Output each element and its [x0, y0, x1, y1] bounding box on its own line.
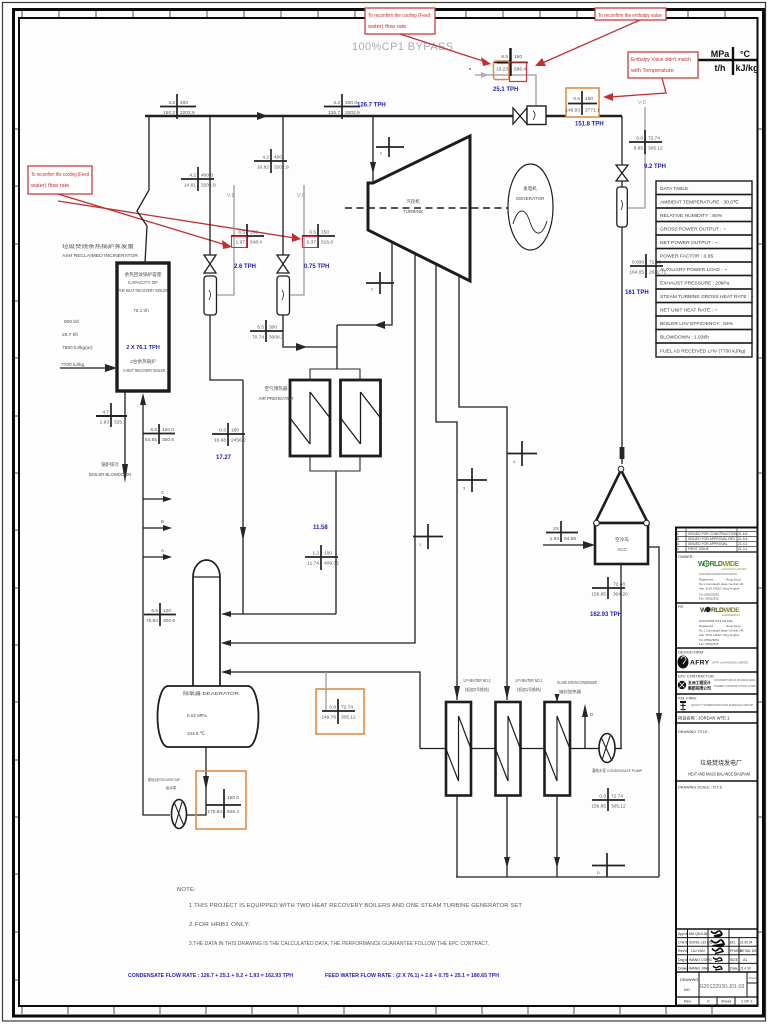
svg-text:21.3.1: 21.3.1 — [738, 547, 748, 551]
node cross blowdown — [96, 403, 127, 427]
svg-text:54.55: 54.55 — [145, 437, 157, 443]
DATATABLE — [656, 181, 754, 357]
valve exhaust bypass — [616, 165, 628, 181]
wire GSC steam stub — [556, 695, 558, 702]
generator G1 — [508, 164, 553, 250]
svg-text:150: 150 — [585, 96, 593, 102]
wire top bypass to desuperheater (ghost) — [475, 75, 536, 106]
svg-text:Dsg'd: Dsg'd — [678, 958, 687, 962]
svg-text:TURBINE: TURBINE — [403, 209, 423, 214]
node cross drop2 — [254, 149, 289, 173]
svg-text:HEAT AND MASS BALANCE DIAGRAM: HEAT AND MASS BALANCE DIAGRAM — [688, 772, 750, 777]
svg-text:300.6: 300.6 — [163, 618, 175, 624]
svg-text:305.12: 305.12 — [611, 804, 626, 810]
svg-text:C: C — [707, 1000, 710, 1004]
node cross preheater-out 11.58 — [305, 545, 339, 570]
svg-text:180: 180 — [231, 428, 239, 434]
svg-text:No.1 Connaught place Central,: No.1 Connaught place Central, HK — [699, 582, 744, 586]
svg-text:548.4: 548.4 — [250, 240, 262, 246]
feed water pump P1 — [172, 800, 187, 829]
svg-text:Hong Kong: Hong Kong — [726, 578, 741, 582]
svg-text:with Temperature: with Temperature — [630, 68, 674, 74]
approval table — [676, 929, 758, 972]
svg-text:Attn: W.W. FIELD Yang Knights: Attn: W.W. FIELD Yang Knights — [699, 587, 740, 591]
svg-text:400: 400 — [180, 100, 188, 106]
wire deaerator inlet bottom (condensate) — [231, 672, 420, 749]
svg-text:Rev'd: Rev'd — [678, 949, 687, 953]
svg-text:1.2: 1.2 — [312, 551, 319, 557]
svg-text:RLDWIDE: RLDWIDE — [710, 561, 740, 568]
svg-text:QUALITY SUPERVISION FOR SHANGH: QUALITY SUPERVISION FOR SHANGHAI GROUP — [691, 703, 754, 707]
svg-text:CONSORTIUM OF WUZHOU ENG.: CONSORTIUM OF WUZHOU ENG. — [714, 678, 756, 682]
svg-text:DETAIL DSN: DETAIL DSN — [740, 949, 759, 953]
wire GSC vent D — [584, 716, 586, 749]
svg-text:V-D: V-D — [638, 100, 647, 106]
wire ACC right outlet to drain header — [648, 547, 659, 877]
svg-text:1.93: 1.93 — [100, 420, 110, 426]
wire condensate main through heaters — [420, 748, 599, 750]
deaerator column — [193, 560, 220, 686]
svg-text:(低加2号换热): (低加2号换热) — [465, 686, 490, 693]
svg-text:94.86: 94.86 — [564, 536, 576, 542]
node cross turbine inlet 0 — [376, 137, 404, 157]
svg-text:D: D — [590, 712, 594, 717]
node cross extraction 2 — [366, 272, 394, 294]
svg-text:垃圾焚烧余热锅炉蒸发量: 垃圾焚烧余热锅炉蒸发量 — [62, 243, 135, 250]
label air preheater — [258, 385, 293, 401]
svg-text:0.8: 0.8 — [599, 794, 606, 800]
svg-text:0: 0 — [677, 547, 679, 551]
svg-text:72.68: 72.68 — [613, 582, 625, 588]
node cross V-B flow — [231, 224, 264, 248]
svg-text:GROSS POWER OUTPUT : ~: GROSS POWER OUTPUT : ~ — [660, 227, 726, 233]
svg-text:垃圾焚烧发电厂: 垃圾焚烧发电厂 — [700, 759, 742, 767]
svg-text:DRAWING: DRAWING — [680, 978, 698, 982]
node cross extraction 3 — [457, 468, 487, 492]
TITLEBLOCK — [676, 528, 759, 1006]
wire cylinder2 outlet to preheater — [283, 315, 337, 347]
revision mini table — [676, 528, 758, 553]
svg-text:P.M. FIRM:: P.M. FIRM: — [678, 697, 697, 701]
svg-text:16.68: 16.68 — [214, 438, 226, 444]
svg-text:NET UNIT HEAT RATE : ~: NET UNIT HEAT RATE : ~ — [660, 308, 717, 314]
NOTES — [128, 887, 522, 979]
svg-text:156.85: 156.85 — [591, 592, 606, 598]
wire LPH1 drain — [506, 796, 508, 878]
svg-text:2X: 2X — [553, 526, 560, 532]
svg-text:150.2: 150.2 — [163, 110, 175, 116]
svg-text:3: 3 — [463, 486, 466, 491]
svg-text:6.5: 6.5 — [151, 608, 158, 614]
right ruler ticks — [758, 129, 764, 932]
svg-text:1.THIS PROJECT IS EQUIPPED WIT: 1.THIS PROJECT IS EQUIPPED WITH TWO HEAT… — [189, 903, 522, 909]
svg-text:AUXILIARY POWER LOAD : ~: AUXILIARY POWER LOAD : ~ — [660, 267, 727, 273]
svg-text:3202.9: 3202.9 — [201, 183, 216, 189]
svg-text:120: 120 — [163, 608, 171, 614]
bottom row — [698, 997, 700, 1006]
svg-text:给水泵: 给水泵 — [166, 785, 177, 790]
svg-text:4.2: 4.2 — [189, 173, 196, 179]
svg-text:Sheet: Sheet — [721, 1000, 732, 1004]
attemperator cylinder 1 — [204, 276, 217, 315]
svg-text:72.74: 72.74 — [341, 705, 353, 711]
svg-text:3202.9: 3202.9 — [274, 165, 289, 171]
ANNOTATIONS — [28, 8, 698, 249]
svg-text:余热回收锅炉容量: 余热回收锅炉容量 — [125, 271, 162, 278]
svg-text:0.8: 0.8 — [636, 136, 643, 142]
svg-text:To reconfirm the cooling (Feed: To reconfirm the cooling (Feed — [31, 172, 89, 178]
svg-text:ISSUED FOR APPROVAL REV: ISSUED FOR APPROVAL REV — [688, 537, 736, 541]
wire ghost bypass V-D — [628, 107, 645, 208]
svg-text:10.82: 10.82 — [257, 165, 269, 171]
svg-text:149.93: 149.93 — [565, 108, 580, 114]
svg-text:Rev: Rev — [684, 1000, 691, 1004]
svg-text:V-B: V-B — [227, 193, 236, 199]
wire GSC drain — [556, 796, 558, 878]
label fuel data — [61, 319, 93, 368]
wire fuel feed arrow — [60, 367, 110, 369]
wire drop line 2 (to V-C train) — [282, 116, 284, 255]
flow arrow on header — [257, 112, 268, 120]
svg-text:325.3: 325.3 — [114, 420, 126, 426]
DATA-CROSSES — [96, 48, 667, 877]
svg-text:2.FOR HRB1 ONLY.: 2.FOR HRB1 ONLY. — [189, 922, 250, 928]
svg-text:空气预热器: 空气预热器 — [265, 385, 288, 392]
wire extraction x459 to LP heater1 — [459, 275, 507, 700]
node cross preheater-in — [250, 320, 284, 342]
svg-text:Drawn: Drawn — [678, 966, 688, 970]
svg-text:150.0: 150.0 — [227, 795, 239, 801]
svg-text:156.85: 156.85 — [591, 804, 606, 810]
svg-text:AFRY (SHANGHAI) LIMITED: AFRY (SHANGHAI) LIMITED — [712, 661, 748, 665]
svg-text:25.1 TPH: 25.1 TPH — [493, 87, 518, 93]
svg-text:RLDWIDE: RLDWIDE — [711, 607, 740, 614]
svg-text:2456.2: 2456.2 — [231, 438, 246, 444]
svg-text:HOLDINGS LIMITED: HOLDINGS LIMITED — [722, 567, 747, 571]
svg-text:BOILER BLOWDOWN: BOILER BLOWDOWN — [89, 472, 131, 477]
top ruler ticks — [22, 11, 725, 17]
svg-text:Date: Date — [730, 966, 738, 970]
drawing number block — [698, 972, 700, 997]
svg-text:AMBIENT TEMPERATURE : 30.0℃: AMBIENT TEMPERATURE : 30.0℃ — [660, 200, 739, 206]
svg-text:2771.1: 2771.1 — [585, 108, 600, 114]
svg-text:75.84: 75.84 — [146, 618, 158, 624]
svg-text:120.0: 120.0 — [162, 427, 174, 433]
svg-text:POWER FACTOR : 0.85: POWER FACTOR : 0.85 — [660, 254, 713, 260]
svg-text:DRAWING TITLE:: DRAWING TITLE: — [678, 730, 709, 734]
svg-text:7850 kJ/kg(ar): 7850 kJ/kg(ar) — [62, 345, 93, 351]
svg-text:FUEL AS RECEIVED LHV (7700 kJ/: FUEL AS RECEIVED LHV (7700 kJ/kg) — [660, 349, 746, 355]
node cross deaerator-in (orange) — [316, 689, 364, 734]
node cross drain-header — [592, 853, 625, 877]
svg-text:AFRY: AFRY — [690, 660, 710, 667]
node cross extraction 1 — [413, 524, 443, 549]
svg-text:4.2: 4.2 — [333, 100, 340, 106]
svg-text:305.12: 305.12 — [648, 146, 663, 152]
svg-text:五洲工程设计: 五洲工程设计 — [688, 680, 711, 685]
svg-text:NOTE:: NOTE: — [177, 887, 196, 893]
LEGEND — [352, 41, 759, 75]
svg-text:1 OF 1: 1 OF 1 — [741, 1000, 753, 1004]
svg-text:water) flow rate: water) flow rate — [30, 183, 69, 189]
wire extraction x415 to deaerator mid — [231, 253, 415, 643]
valve V-C control — [277, 255, 289, 273]
svg-text:LP HEATER NO.2: LP HEATER NO.2 — [464, 678, 492, 683]
svg-text:400: 400 — [274, 155, 282, 161]
svg-text:App'd: App'd — [678, 932, 687, 936]
red note box top-left — [365, 8, 435, 34]
node cross extraction 4 — [507, 441, 537, 466]
svg-text:0.6: 0.6 — [573, 96, 580, 102]
svg-text:17.27: 17.27 — [216, 455, 232, 461]
attemperator cylinder 2 — [277, 276, 290, 315]
svg-text:POWER CONSTRUCTION CORP.: POWER CONSTRUCTION CORP. — [714, 684, 756, 688]
red leader 1 — [400, 34, 486, 62]
svg-text:集团有限公司: 集团有限公司 — [687, 686, 711, 691]
condensate pump P2 — [599, 734, 615, 763]
svg-text:WORLDWIDE ADVANCED ENVIRO SERV: WORLDWIDE ADVANCED ENVIRO SERVICE — [699, 572, 737, 576]
svg-text:Fax: (852)2515: Fax: (852)2515 — [699, 597, 719, 601]
svg-text:0.600: 0.600 — [632, 260, 644, 266]
svg-text:161 TPH: 161 TPH — [625, 290, 649, 296]
wire deaerator inlet top (from preheater) — [231, 613, 336, 615]
svg-text:C: C — [161, 490, 165, 495]
svg-text:0.75 TPH: 0.75 TPH — [304, 264, 329, 270]
svg-text:MPa: MPa — [711, 49, 731, 59]
svg-text:A: A — [161, 548, 164, 553]
svg-text:100: 100 — [324, 551, 332, 557]
node cross exhaust 161 — [629, 254, 666, 278]
svg-text:No.1 Connaught place Central,: No.1 Connaught place Central, HK — [699, 629, 744, 633]
svg-text:126.7 TPH: 126.7 TPH — [357, 103, 386, 109]
svg-text:150: 150 — [514, 54, 522, 60]
svg-text:8.85: 8.85 — [634, 146, 644, 152]
shaft dashed — [345, 207, 508, 209]
svg-text:ACC: ACC — [617, 547, 627, 552]
svg-text:ISSUED FOR APPROVAL: ISSUED FOR APPROVAL — [688, 542, 728, 546]
red note box right-mid — [628, 52, 698, 78]
wire ghost bypass V-C — [290, 185, 304, 295]
svg-text:发电机: 发电机 — [523, 185, 537, 192]
svg-text:汽轮机: 汽轮机 — [406, 198, 420, 205]
node cross drop1 — [181, 167, 216, 191]
svg-text:3.THE DATA IN THIS DRAWING IS: 3.THE DATA IN THIS DRAWING IS THE CALCUL… — [189, 941, 489, 947]
wire cylinder1 outlet to deaerator leg — [210, 315, 243, 380]
legend units cross — [691, 59, 757, 61]
svg-text:Registered :: Registered : — [699, 624, 715, 628]
preheater manifolds — [310, 369, 360, 471]
svg-text:2: 2 — [371, 287, 374, 292]
svg-text:D: D — [597, 870, 600, 875]
svg-text:STEAM TURBINE GROSS HEAT RATE: STEAM TURBINE GROSS HEAT RATE : ~ — [660, 294, 754, 300]
red leader 4a — [58, 194, 226, 245]
svg-text:EXHAUST PRESSURE : 20kPa: EXHAUST PRESSURE : 20kPa — [660, 281, 729, 287]
svg-text:3008.3: 3008.3 — [269, 335, 284, 341]
svg-text:11.58: 11.58 — [313, 525, 328, 531]
svg-text:PE:: PE: — [678, 605, 684, 609]
svg-text:586.4: 586.4 — [514, 67, 526, 73]
svg-text:4.2: 4.2 — [262, 155, 269, 161]
svg-text:空冷岛: 空冷岛 — [615, 536, 629, 543]
svg-text:21.5.6: 21.5.6 — [738, 537, 748, 541]
svg-text:150: 150 — [321, 230, 329, 236]
node cross feedwater-boiler — [143, 424, 175, 444]
svg-text:0: 0 — [380, 151, 383, 156]
svg-text:P.Form: P.Form — [749, 976, 759, 980]
node cross 151.8 — [566, 88, 599, 117]
svg-text:EPC CONTRACTOR:: EPC CONTRACTOR: — [678, 675, 715, 679]
label blowdown — [89, 461, 131, 477]
ACC air cooled condenser — [595, 470, 648, 523]
svg-text:t/h: t/h — [715, 63, 726, 73]
wire offpage stub C — [143, 498, 166, 500]
svg-text:76.1 t/h: 76.1 t/h — [133, 308, 149, 313]
svg-text:300: 300 — [269, 325, 277, 331]
LP heater No.1 — [496, 702, 521, 796]
svg-text:ED.: ED. — [730, 941, 736, 945]
svg-text:NO.: NO. — [684, 988, 691, 992]
node cross ACC-in 2X1.93 — [546, 521, 578, 542]
svg-text:V-C: V-C — [297, 193, 306, 199]
air preheater PH1 — [290, 380, 330, 456]
svg-text:NET POWER OUTPUT : ~: NET POWER OUTPUT : ~ — [660, 240, 718, 246]
svg-text:BOILER LHV EFFICIENCY : 84%: BOILER LHV EFFICIENCY : 84% — [660, 321, 734, 327]
svg-text:2.6 TPH: 2.6 TPH — [234, 264, 256, 270]
svg-text:4.2: 4.2 — [168, 100, 175, 106]
svg-text:BLOWDOWN : 1.93t/h: BLOWDOWN : 1.93t/h — [660, 335, 709, 341]
wire turbine extraction to preheater — [337, 240, 392, 325]
wire LPH2 drain — [456, 796, 458, 878]
svg-text:LIU YAN: LIU YAN — [691, 949, 705, 953]
wire extraction x436 to LP heater2 — [436, 264, 457, 700]
svg-text:21.06.04: 21.06.04 — [740, 941, 753, 945]
wire gray tap to cross — [325, 672, 327, 711]
svg-text:To reconfirm the enthalpy valu: To reconfirm the enthalpy value — [598, 13, 662, 19]
wire deaerator inlet mid — [221, 640, 231, 646]
svg-text:0.02 MPa: 0.02 MPa — [187, 713, 207, 718]
EQUIPMENT — [61, 136, 649, 829]
boiler U1 heat recovery boiler — [117, 263, 169, 391]
svg-text:G20122030-J01-03: G20122030-J01-03 — [700, 984, 745, 990]
deaerator tank — [158, 686, 259, 747]
svg-text:Fax: (852)2515: Fax: (852)2515 — [699, 642, 719, 646]
svg-text:1: 1 — [419, 542, 422, 547]
svg-text:29.7 t/h: 29.7 t/h — [62, 332, 78, 338]
svg-text:305.12: 305.12 — [341, 715, 356, 721]
svg-text:AIR PREHEATER: AIR PREHEATER — [258, 396, 293, 401]
svg-text:DRAWING SCALE : N.T.S: DRAWING SCALE : N.T.S — [678, 786, 723, 790]
svg-text:900 t/d: 900 t/d — [64, 319, 79, 325]
svg-text:6.5: 6.5 — [501, 54, 508, 60]
svg-text:2 HEAT RECOVERY BOILER: 2 HEAT RECOVERY BOILER — [123, 368, 165, 373]
svg-text:(低加1号换热): (低加1号换热) — [517, 686, 542, 693]
svg-text:FIRST ISSUE: FIRST ISSUE — [688, 547, 710, 551]
svg-text:WANG CONG: WANG CONG — [689, 958, 712, 962]
svg-text:LP HEATER NO.1: LP HEATER NO.1 — [516, 678, 544, 683]
svg-text:MA QIULIN: MA QIULIN — [689, 932, 708, 936]
svg-text:19.23: 19.23 — [496, 67, 508, 73]
svg-text:516.6: 516.6 — [321, 240, 333, 246]
svg-text:CONDENSATE FLOW RATE : 126.7 +: CONDENSATE FLOW RATE : 126.7 + 25.1 + 9.… — [128, 973, 293, 979]
svg-text:SIZE: SIZE — [730, 958, 739, 962]
svg-text:SONG LEI QU: SONG LEI QU — [689, 941, 713, 945]
svg-text:846.4: 846.4 — [227, 809, 239, 815]
svg-text:21.4.2: 21.4.2 — [738, 542, 748, 546]
svg-text:kJ/kg: kJ/kg — [735, 63, 758, 73]
svg-text:6.5: 6.5 — [238, 230, 245, 236]
svg-text:350.6: 350.6 — [162, 437, 174, 443]
red note box left-mid — [28, 166, 92, 194]
wire ghost bypass V-B — [217, 185, 234, 295]
svg-text:2 X 76.1 TPH: 2 X 76.1 TPH — [126, 345, 160, 351]
svg-text:ISSUED FOR CONSTRUCTION: ISSUED FOR CONSTRUCTION — [688, 532, 738, 536]
svg-text:3202.9: 3202.9 — [180, 110, 195, 116]
svg-text:凝结水泵 CONDENSATE PUMP: 凝结水泵 CONDENSATE PUMP — [592, 768, 642, 773]
svg-text:11.74: 11.74 — [307, 561, 319, 567]
svg-text:WORLDWIDE POLE HOLDING: WORLDWIDE POLE HOLDING — [699, 619, 734, 623]
svg-text:FEED WATER FLOW RATE : (2 X 76: FEED WATER FLOW RATE : (2 X 76.1) + 2.6 … — [325, 973, 499, 979]
node cross feedpump-out (orange) — [196, 771, 246, 829]
node cross header-left — [160, 94, 196, 119]
svg-text:1.93: 1.93 — [550, 536, 560, 542]
node cross feedwater-low — [144, 603, 176, 626]
wire ACC inlet (blowdown flash) — [543, 544, 584, 546]
svg-text:400.0: 400.0 — [345, 100, 357, 106]
svg-text:DATA TABLE: DATA TABLE — [660, 186, 689, 192]
svg-text:ASH RECLAIMED INCINERATOR: ASH RECLAIMED INCINERATOR — [62, 253, 139, 258]
svg-text:GLAND STEAM CONDENSER: GLAND STEAM CONDENSER — [557, 680, 597, 685]
red leader 2 — [540, 20, 640, 64]
node cross V-D — [629, 130, 663, 154]
svg-text:6.5: 6.5 — [150, 427, 157, 433]
svg-text:RELATIVE HUMIDITY : 80%: RELATIVE HUMIDITY : 80% — [660, 213, 723, 219]
svg-text:Attn: W.W. FIELD Yang Knights: Attn: W.W. FIELD Yang Knights — [699, 633, 740, 637]
svg-text:Chk'd: Chk'd — [678, 941, 687, 945]
node cross bypass 25.1 — [494, 48, 528, 76]
wire ACC condensate down to pump — [620, 564, 622, 749]
svg-text:0.37: 0.37 — [307, 240, 317, 246]
svg-text:项目名称 : JORDAN WTE 1: 项目名称 : JORDAN WTE 1 — [678, 715, 730, 722]
svg-text:149.76: 149.76 — [321, 715, 336, 721]
svg-text:21.6.8: 21.6.8 — [738, 532, 748, 536]
svg-text:锅炉给水泵 FEED WATER PUMP: 锅炉给水泵 FEED WATER PUMP — [148, 777, 180, 782]
wire turbine inlet — [372, 116, 374, 183]
svg-text:6.5: 6.5 — [309, 230, 316, 236]
svg-text:°C: °C — [740, 49, 751, 59]
svg-text:304.20: 304.20 — [613, 592, 628, 598]
svg-text:轴封加热器: 轴封加热器 — [559, 688, 582, 695]
svg-text:2台余热锅炉: 2台余热锅炉 — [130, 358, 156, 365]
node cross ACC-out — [591, 577, 628, 599]
svg-text:Enthalpy Value didn't match: Enthalpy Value didn't match — [631, 57, 691, 63]
svg-text:70.74: 70.74 — [252, 335, 264, 341]
signature scribbles — [711, 931, 724, 970]
svg-text:THE HEAT RECOVERY BOILER: THE HEAT RECOVERY BOILER — [118, 288, 169, 293]
svg-text:151.8 TPH: 151.8 TPH — [575, 122, 604, 128]
svg-text:To reconfirm the cooling (Feed: To reconfirm the cooling (Feed — [368, 13, 430, 19]
bottom ruler ticks — [22, 1007, 712, 1014]
svg-text:Registered :: Registered : — [699, 578, 715, 582]
svg-text:WANG JING: WANG JING — [689, 966, 709, 970]
LP heater No.2 — [446, 702, 471, 796]
desuperheater box — [527, 106, 546, 125]
svg-text:CAPACITY OF: CAPACITY OF — [128, 280, 158, 285]
svg-text:164.05: 164.05 — [629, 270, 644, 276]
svg-text:GENERATOR: GENERATOR — [516, 196, 545, 201]
svg-text:126.7: 126.7 — [328, 110, 340, 116]
red leader 3 — [610, 78, 666, 97]
svg-text:21.4.30: 21.4.30 — [740, 966, 751, 970]
